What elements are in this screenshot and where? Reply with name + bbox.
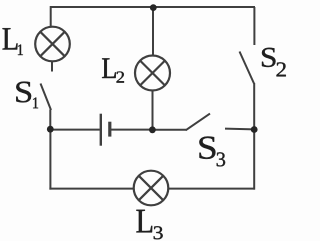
label S2 glyph S xyxy=(262,48,276,67)
label S3 glyph S xyxy=(199,137,215,159)
wire S2 fixed contact stub xyxy=(253,7,255,45)
label L1 glyph 1 xyxy=(18,45,23,56)
node junction dot right xyxy=(251,126,258,133)
switch S1 blade xyxy=(41,84,52,111)
switch S2 blade xyxy=(240,52,255,84)
label L3 glyph 3 xyxy=(154,226,163,239)
wire S1 to left node xyxy=(49,110,51,130)
wire battery to middle node xyxy=(111,129,152,131)
wire top horizontal xyxy=(51,6,255,8)
wire bottom left horizontal xyxy=(49,188,133,190)
switch S3 blade xyxy=(186,114,210,131)
lamp L1 xyxy=(35,27,70,62)
label S1 glyph S xyxy=(16,82,31,103)
label L3 glyph L xyxy=(136,210,152,233)
label S2 glyph 2 xyxy=(277,62,286,76)
wire L2 top xyxy=(152,7,154,55)
wire left vertical xyxy=(49,129,51,190)
label L1 glyph L xyxy=(3,28,18,49)
battery short plate xyxy=(108,122,111,137)
wire bottom right horizontal xyxy=(168,188,255,190)
wire S3 fixed contact xyxy=(225,128,254,131)
node junction dot left xyxy=(47,126,54,133)
label S1 glyph 1 xyxy=(33,98,38,109)
wire right vertical lower xyxy=(253,83,255,190)
label L2 glyph 2 xyxy=(117,72,125,83)
lamp L2 xyxy=(135,56,170,91)
label L2 glyph L xyxy=(102,58,116,78)
label S3 glyph 3 xyxy=(217,152,225,166)
wire middle node to S3 pivot xyxy=(152,129,186,131)
node junction dot top xyxy=(150,4,157,11)
wire L1 bottom stub xyxy=(51,61,53,71)
wire top-left vertical into L1 xyxy=(50,6,52,27)
lamp L3 xyxy=(134,171,169,206)
wire middle: left node to battery xyxy=(50,129,100,131)
node junction dot middle xyxy=(149,126,156,133)
battery long plate xyxy=(100,114,102,146)
wire L2 bottom xyxy=(152,91,154,130)
